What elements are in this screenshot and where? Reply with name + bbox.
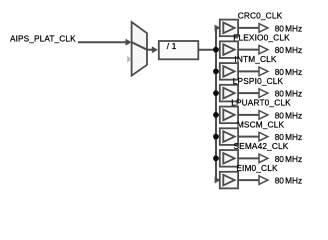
junction bus/INTM_CLK [213,69,219,75]
divider DIV1 box [159,41,199,59]
clock gate buffer G8 (EIM0_CLK) [220,172,238,189]
svg-text:INTM_CLK: INTM_CLK [234,54,277,64]
svg-text:/ 1: / 1 [167,41,177,51]
bus wire vertical [215,27,217,181]
mux MUX1 (AIPS_PLAT clock mux) [132,22,147,76]
junction bus/FLEXIO0_CLK [213,47,219,53]
svg-text:80 MHz: 80 MHz [275,45,303,55]
wire bus stub to gate MSCM_CLK [215,133,221,140]
output arrow FLEXIO0_CLK [259,45,268,54]
wire LPSPI0_CLK output [238,92,259,94]
wire bus stub to gate FLEXIO0_CLK [215,46,221,53]
svg-text:SEMA42_CLK: SEMA42_CLK [234,141,289,151]
wire INTM_CLK output [238,70,259,72]
wire SEMA42_CLK output [238,157,259,159]
junction bus/SEMA42_CLK [213,156,219,162]
output arrow SEMA42_CLK [259,154,268,163]
wire bus stub to gate CRC0_CLK [215,25,221,32]
clock gate buffer G1 (CRC0_CLK) [220,20,238,37]
wire bus stub to gate LPUART0_CLK [215,111,221,118]
wire bus stub to gate EIM0_CLK [215,177,221,184]
output arrow INTM_CLK [259,67,268,76]
mux selected path wire [132,42,147,50]
clock gate buffer G3 (INTM_CLK) [220,63,238,80]
wire LPUART0_CLK output [238,114,259,116]
output arrow LPUART0_CLK [259,111,268,120]
svg-text:AIPS_PLAT_CLK: AIPS_PLAT_CLK [10,33,76,43]
wire AIPS_PLAT_CLK input to mux [78,39,132,46]
junction bus/LPSPI0_CLK [213,90,219,96]
clock gate buffer G6 (MSCM_CLK) [220,128,238,145]
wire EIM0_CLK output [238,179,259,181]
svg-text:LPSPI0_CLK: LPSPI0_CLK [233,76,284,86]
output arrow LPSPI0_CLK [259,89,268,98]
wire bus stub to gate SEMA42_CLK [215,155,221,162]
clock gate buffer G4 (LPSPI0_CLK) [220,85,238,102]
svg-text:MSCM_CLK: MSCM_CLK [237,119,285,129]
svg-text:FLEXIO0_CLK: FLEXIO0_CLK [233,32,290,42]
wire CRC0_CLK output [238,27,259,29]
output arrow EIM0_CLK [259,176,268,185]
svg-text:CRC0_CLK: CRC0_CLK [238,11,283,21]
mux unselected input arrow (pin 1) [127,56,131,63]
clock gate buffer G7 (SEMA42_CLK) [220,150,238,167]
wire FLEXIO0_CLK output [238,49,259,51]
clock gate buffer G2 (FLEXIO0_CLK) [220,41,238,58]
wire bus stub to gate LPSPI0_CLK [215,90,221,97]
wire MSCM_CLK output [238,136,259,138]
wire divider to distribution bus [198,49,216,51]
svg-text:80 MHz: 80 MHz [275,154,303,164]
output arrow CRC0_CLK [259,24,268,33]
wire mux output to divider [147,46,158,53]
svg-text:80 MHz: 80 MHz [275,176,303,186]
junction bus/LPUART0_CLK [213,112,219,118]
output arrow MSCM_CLK [259,132,268,141]
wire bus stub to gate INTM_CLK [215,68,221,75]
svg-text:LPUART0_CLK: LPUART0_CLK [231,98,291,108]
clock gate buffer G5 (LPUART0_CLK) [220,107,238,124]
svg-text:EIM0_CLK: EIM0_CLK [236,163,278,173]
junction bus/MSCM_CLK [213,134,219,140]
